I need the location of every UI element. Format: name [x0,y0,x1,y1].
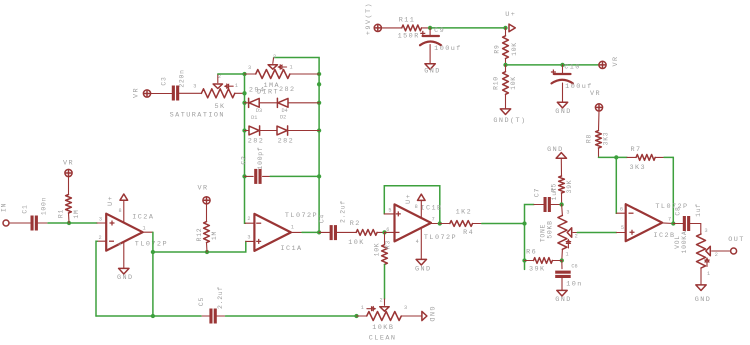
svg-text:6: 6 [620,206,623,212]
capacitor C6 10n [555,261,583,289]
wire C10 to GND [562,83,564,102]
wire +9V to R11 [381,27,401,29]
svg-text:R2: R2 [350,220,361,228]
svg-text:GND: GND [415,265,432,273]
wire R4 to tone [473,223,525,225]
svg-text:1M: 1M [211,231,218,240]
wire IC2A out [143,232,153,316]
node tone in [522,221,526,225]
svg-text:282: 282 [279,86,296,94]
node rail sat [242,91,246,95]
node C9 tap [428,26,432,30]
supply VR (C3) [133,87,151,98]
wire VR to C3 [151,93,172,95]
svg-text:3: 3 [248,65,251,71]
node rail out [151,314,155,318]
svg-text:3: 3 [566,209,569,215]
svg-text:VR: VR [197,185,208,193]
node R12 tap [205,250,209,254]
node rrail D2 [317,128,321,132]
svg-text:100n: 100n [41,197,48,215]
wire C8 to VOL [690,224,701,235]
potentiometer SATURATION 5K [170,74,238,120]
capacitor C8 1uf [673,203,702,231]
svg-text:R8: R8 [586,134,593,143]
op-amp IC1A [254,212,318,253]
wire R2 to node [377,231,384,233]
svg-text:C10: C10 [564,64,581,72]
svg-text:1M: 1M [73,209,80,218]
wire fb IC1B [384,186,440,224]
svg-text:5: 5 [621,225,624,231]
power U+ IC1B pin8 [405,193,425,218]
wire TONE wiper to IC2B [577,232,616,234]
svg-text:D2: D2 [280,114,286,120]
svg-text:7: 7 [432,217,435,223]
svg-text:D3: D3 [256,108,262,114]
ground GND(T) [493,109,526,125]
svg-text:TL072P: TL072P [135,241,168,249]
svg-text:C6: C6 [571,264,577,270]
wire sat wiper to rail [218,73,245,75]
svg-text:1uf: 1uf [695,203,702,217]
svg-text:282: 282 [248,137,265,145]
svg-text:1: 1 [289,64,292,70]
capacitor C9 100uf [420,27,462,53]
node rail D1 [242,128,246,132]
svg-text:OUT: OUT [728,236,745,244]
node IC1B pin6 [382,230,386,234]
wire C2 to rail [263,175,320,177]
svg-text:C4: C4 [319,214,326,223]
wire to IC2A pin3 [97,217,106,223]
ground GND (VOL) [695,285,712,304]
resistor R4 1K2 [440,209,474,238]
svg-text:R4: R4 [463,229,474,237]
capacitor C7 [534,187,559,212]
resistor R12 1M [196,204,218,252]
node IC2B out [671,221,675,225]
svg-text:10n: 10n [566,281,583,289]
wire C1 to node [38,222,97,224]
svg-text:R12: R12 [196,228,203,242]
resistor R9 10K [494,28,518,65]
svg-text:C2: C2 [241,155,248,164]
wire rail to DIRT [245,65,256,74]
wire to IC1A pin3 [246,235,255,242]
resistor R5 39K [551,158,574,204]
wire tone down [524,224,526,270]
svg-text:282: 282 [278,137,295,145]
svg-text:C1: C1 [22,204,29,213]
svg-text:VR: VR [133,87,141,98]
node C10 tap [560,63,564,67]
wire R7 to out [664,157,673,223]
resistor R1 1M [58,177,81,223]
wire R11 to node [422,27,431,29]
svg-text:R11: R11 [399,16,416,24]
power GND IC1B pin4 [415,228,432,273]
wire bottom rail [96,315,357,317]
svg-text:3K3: 3K3 [630,164,647,172]
svg-text:R6: R6 [526,248,537,256]
wire C6 to GND [561,278,563,291]
port IN [1,203,10,226]
svg-text:3: 3 [247,235,250,241]
node rrail C2 [317,174,321,178]
svg-text:2: 2 [715,252,718,258]
wire IC2B pin5 [617,225,626,232]
potentiometer CLEAN 10KB [357,298,408,343]
svg-text:4: 4 [416,239,419,245]
node R1 tap [67,221,71,225]
svg-text:2: 2 [99,235,102,241]
svg-text:R3: R3 [385,240,392,249]
wire C3 to pot [179,83,201,93]
svg-text:150R: 150R [398,33,420,41]
node rail C2 [242,174,246,178]
svg-text:VR: VR [63,160,74,168]
svg-text:10K: 10K [511,42,518,56]
diode D4 282 [277,98,288,114]
supply VR (divider) [599,55,620,68]
potentiometer TONE 50KB [539,205,577,258]
node R6 in [522,258,526,262]
resistor R3 10K [374,232,392,264]
supply VR (R12) [197,185,210,204]
svg-text:+9V(T): +9V(T) [365,2,373,35]
node rail sat-top [242,72,246,76]
resistor R10 10K [493,65,518,109]
svg-text:C9: C9 [434,27,445,35]
svg-text:100uf: 100uf [434,45,462,53]
svg-text:IC1B: IC1B [420,205,442,213]
svg-text:VOL: VOL [674,235,681,249]
svg-text:GND: GND [555,296,572,304]
svg-text:1: 1 [565,252,568,258]
potentiometer VOL 100KA [674,228,718,277]
wire IC2B out [662,222,673,225]
label 282 282 [248,137,294,145]
svg-text:8: 8 [118,208,121,214]
diode D3 294 [245,98,263,114]
wire IC1B out [431,223,440,225]
svg-text:3: 3 [99,217,102,223]
svg-text:CLEAN: CLEAN [369,335,397,343]
svg-text:TL072P: TL072P [285,212,318,220]
svg-text:IC1A: IC1A [280,245,302,253]
svg-text:5: 5 [388,207,391,213]
svg-text:10K: 10K [510,76,517,90]
wire divider to VR [506,64,599,66]
svg-text:3: 3 [704,228,707,234]
wire node to IC1B pin6 [385,227,395,233]
svg-text:GND: GND [555,108,572,116]
node fb branch [614,155,618,159]
wire D2 to rail [288,130,319,132]
svg-text:2: 2 [247,216,250,222]
ground GND (R5 top) [547,146,566,158]
wire VOL to OUT [717,250,731,252]
svg-text:1: 1 [707,271,710,277]
svg-text:GND: GND [117,274,134,282]
power U+ IC2A pin8 [107,194,128,223]
svg-text:IC2B: IC2B [653,232,675,240]
svg-text:R7: R7 [630,146,641,154]
svg-text:1: 1 [361,305,364,311]
op-amp IC2B [626,203,689,241]
wire right rail [274,58,320,233]
svg-text:U+: U+ [107,195,115,206]
svg-text:39K: 39K [566,180,573,194]
svg-text:C5: C5 [198,297,205,306]
node CLEAN pin1 [354,314,358,318]
resistor R7 3K3 [627,146,664,172]
wire sat out to rail [235,92,245,94]
svg-text:GND: GND [424,68,441,76]
power GND IC2A pin4 [117,242,134,283]
ground GND (CLEAN) [422,307,435,324]
svg-text:U+: U+ [405,193,413,204]
svg-text:220n: 220n [179,69,186,87]
wire fb to pin6 [615,157,617,213]
wire C4 to R2 [337,231,356,233]
svg-text:4: 4 [118,241,121,247]
svg-text:C8: C8 [674,206,681,215]
wire rail to IC1A pin2 [245,216,254,223]
svg-text:D4: D4 [281,108,287,114]
svg-text:IN: IN [1,203,8,212]
node IC1B out [438,221,442,225]
supply +9V(T) port [365,2,381,35]
svg-text:IC2A: IC2A [132,213,154,221]
node rrail D4 [317,101,321,105]
svg-text:6: 6 [386,227,389,233]
svg-text:2: 2 [218,74,221,80]
svg-text:C3: C3 [161,76,168,85]
wire fb to IC1A [153,241,246,252]
svg-text:7: 7 [668,217,671,223]
wire D4 to rail [288,102,319,104]
svg-text:TONE: TONE [539,224,546,242]
wire IC1B pin5 [384,207,394,214]
wire tone up [525,205,534,224]
svg-text:2: 2 [575,234,578,240]
capacitor C10 100uf [551,64,593,92]
supply VR (R1) [63,160,74,177]
capacitor C1 100n [22,197,48,231]
node tone bottom [560,258,564,262]
supply U+ arrow [503,11,516,32]
node rrail dirt [317,72,321,76]
svg-text:2: 2 [379,298,382,304]
svg-text:2: 2 [273,54,276,60]
wire D1-D2 [260,130,277,132]
ground GND (C6) [555,290,572,304]
capacitor C2 100pf [241,147,265,184]
diode D2 282 [277,114,288,135]
svg-text:D1: D1 [251,115,257,121]
svg-text:DIRT: DIRT [257,89,279,97]
wire R3 to CLEAN wiper [384,264,386,299]
wire IC1A out [291,231,319,233]
wire IN to C1 [9,222,31,224]
svg-text:SATURATION: SATURATION [170,112,225,120]
wire left rail [244,74,247,223]
wire IC2A pin2 [96,241,106,316]
ground GND (C9) [424,64,441,76]
node tone top [559,202,563,206]
svg-text:3K3: 3K3 [603,132,610,146]
node rrail mid [317,82,321,86]
node rrail out [317,230,321,234]
svg-text:R5: R5 [551,183,558,192]
node rail D3 [242,101,246,105]
wire R8 to R7 [599,156,628,158]
capacitor C3 220n [161,69,186,100]
ground GND (C10) [555,102,572,116]
svg-text:8: 8 [415,204,418,210]
svg-text:C7: C7 [534,188,541,197]
svg-text:1: 1 [235,83,238,89]
resistor R2 10K [348,220,377,247]
svg-text:100KA: 100KA [681,231,688,254]
svg-text:2.2uf: 2.2uf [217,286,224,309]
svg-text:10KB: 10KB [372,324,394,332]
svg-text:100pf: 100pf [257,147,264,170]
wire C9 to GND [429,45,431,64]
wire DIRT to rail [290,73,319,75]
svg-text:R9: R9 [494,44,501,53]
svg-text:100uf: 100uf [565,83,593,91]
resistor R11 150R [398,16,422,40]
svg-text:GND(T): GND(T) [493,117,526,125]
svg-text:3: 3 [193,83,196,89]
svg-text:10K: 10K [374,243,381,257]
svg-text:VR: VR [612,55,620,66]
wire VOL to GND [700,268,702,285]
svg-text:10K: 10K [348,239,365,247]
diode D1 282 [245,115,260,135]
svg-text:GND: GND [427,307,435,324]
port OUT [728,236,745,254]
op-amp IC1B [395,204,458,242]
svg-text:U+: U+ [505,11,516,19]
supply VR (R8) [590,90,603,111]
node divider mid [503,63,507,67]
wire C7 to node [551,204,562,206]
wire D3-D4 [260,102,278,104]
svg-text:TL072P: TL072P [655,203,688,211]
svg-text:1: 1 [142,226,145,232]
svg-text:VR: VR [590,90,601,98]
resistor R8 3K3 [586,111,610,157]
svg-text:TL072P: TL072P [424,234,457,242]
potentiometer DIRT 1MA [249,54,296,97]
wire CLEAN to GND [401,315,421,317]
op-amp IC2A [99,208,168,251]
svg-text:2.2uf: 2.2uf [339,200,346,223]
svg-text:39K: 39K [529,266,546,274]
svg-text:R10: R10 [493,76,500,90]
svg-text:1: 1 [291,225,294,231]
svg-text:GND: GND [695,296,712,304]
wire TONE bottom [561,249,564,260]
node out-fb [151,250,155,254]
resistor R6 39K [525,248,562,273]
capacitor C5 2.2uf [198,286,226,323]
svg-text:R1: R1 [58,209,65,218]
wire IC2B pin6 [617,206,626,213]
capacitor C4 2.2uf [319,200,347,240]
svg-text:3: 3 [404,305,407,311]
svg-text:1K2: 1K2 [456,209,473,217]
wire node to U+ [430,27,505,29]
svg-text:50KB: 50KB [546,220,553,238]
svg-text:5K: 5K [214,103,225,111]
